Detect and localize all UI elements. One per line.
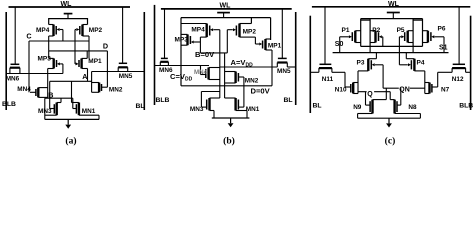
node B horizontal wire left [6,73,63,75]
svg-text:A: A [82,72,87,81]
svg-text:MN3: MN3 [190,106,204,113]
wire BL to N11 [310,71,319,73]
wire P1-P2 pair top bar [361,19,370,21]
wire MP4 gate to node C [62,30,64,42]
node S0-S1 wire [333,52,449,54]
wire VDD rail (b) [181,17,271,19]
wire P5-P6 pair left vertical [412,19,414,47]
svg-text:WL: WL [61,1,73,8]
wire WL to MN6 gate (b) [164,9,166,59]
access transistor MN6 [6,64,20,82]
wire node A jog to MN3 gate (b) [201,92,219,108]
svg-text:C: C [26,32,31,41]
wire MP4 drain to node B (b) [199,37,201,53]
transistor MP2 (b) [227,24,256,38]
label C=VDD (b) [170,72,193,83]
svg-text:B=0V: B=0V [195,50,215,59]
wire MP1 top corner (b) [270,18,272,40]
word line WL (panel a) [9,1,131,8]
transistor N8 [390,100,420,114]
wire MP1 drain to node A [87,69,89,82]
svg-text:D: D [103,41,108,50]
wire P3 top to S wire [375,53,377,59]
svg-text:P2: P2 [372,27,380,34]
wire P6 gate to S1 [443,37,445,53]
svg-text:S1: S1 [439,45,448,52]
transistor MP3 (b) [175,34,201,45]
node B wire (b) [195,50,227,59]
svg-text:B: B [48,90,53,99]
svg-text:(a): (a) [65,136,76,147]
wire MP3 drain to node B [47,69,49,99]
svg-text:MN2: MN2 [109,86,123,93]
wire N9 source down [357,114,359,119]
caption (a) [65,136,76,147]
svg-text:N11: N11 [322,76,334,83]
ground symbol (panel b) [212,118,250,127]
node C wire [26,32,89,41]
wire pair drop left [369,46,371,52]
wire P1-P2 pair right vertical [369,19,371,47]
transistor P1 [340,27,361,43]
label A=VDD (b) [231,58,254,69]
bitline BLB (panel c) [459,16,473,110]
node Q wire [358,91,390,93]
svg-text:N7: N7 [441,87,450,94]
wire P4 top to S wire [405,53,407,59]
svg-text:D=0V: D=0V [251,87,271,96]
transistor N10 [335,83,358,94]
svg-text:MP4: MP4 [36,27,50,34]
wire P1-P2 pair left vertical [360,19,362,47]
wire node C right drop [88,36,90,58]
svg-text:BL: BL [136,103,145,110]
wire MP2 gate to node B (b) [226,30,228,53]
node S0 label [335,41,344,48]
wire MP3 top to node D [48,51,50,59]
wire MN1 source down (b) [246,111,248,119]
svg-text:MP1: MP1 [88,58,102,65]
wire N11 to N10 gate [332,72,345,87]
svg-text:MN4: MN4 [194,69,208,76]
wire MP1 top to node D [86,51,88,59]
svg-text:BLB: BLB [2,101,16,108]
transistor MN1 [72,103,100,116]
svg-text:(c): (c) [385,136,396,147]
wire MP2 gate to MP1 gate [74,30,76,64]
wire P5-P6 pair right vertical [422,19,424,47]
node A horizontal wire right [92,71,145,73]
node A wire [50,72,92,81]
svg-text:MN5: MN5 [277,68,291,75]
svg-text:N12: N12 [452,76,464,83]
bitline BL (panel b) [284,12,296,105]
wire pair bottoms horizontal [361,45,423,47]
transistor N9 [353,100,386,114]
wire N12 to N7 gate [438,72,452,87]
node B wire [45,90,73,99]
svg-text:N8: N8 [408,104,417,111]
bitline BL (panel c) [310,16,321,113]
svg-text:MN2: MN2 [245,78,259,85]
VDD supply symbol (panel c) [387,13,400,19]
transistor P4 [399,59,424,71]
transistor MN4 [17,86,47,97]
svg-text:MP3: MP3 [175,37,189,44]
wire node QN to N8 gate [400,88,402,105]
svg-text:Q: Q [367,91,373,98]
wire MP2 drain to MP1 gate (b) [254,37,256,44]
svg-text:BL: BL [313,102,322,109]
wire MP1 drain to node D (b) [271,50,273,86]
node S1 label [439,45,448,52]
wire VDD rail MP4-MP2 [49,19,88,25]
wire P3 gate to node QN [382,65,384,88]
svg-text:N9: N9 [353,104,362,111]
svg-text:MP2: MP2 [89,27,103,34]
node Q label [367,89,375,98]
access transistor N11 [319,64,334,83]
wire N8 source down [419,114,421,119]
svg-text:P5: P5 [397,27,405,34]
access transistor MN5 (b) [277,58,291,75]
word line WL (panel b) [161,2,292,9]
transistor MP1 [75,58,102,69]
wire WL to MN5 gate [122,7,124,63]
wire node Q to N9 gate [365,92,367,105]
word line WL (panel c) [312,1,470,8]
transistor P5 [397,27,414,43]
label D=0V (b) [251,87,271,96]
node C wire (b) [155,65,210,67]
wire node B left drop to ground rail [44,98,46,119]
transistor P3 [357,59,384,71]
svg-text:(b): (b) [223,136,235,147]
wire N12 to BLB [466,71,471,73]
node QN label [399,84,410,93]
wire VDD rail (c) [361,18,423,20]
wire WL to N12 gate [458,7,460,65]
node QN wire [383,87,425,89]
wire WL to N11 gate [324,7,326,65]
wire node D drop to MN2 gate [106,51,108,87]
wire WL to MN5 gate (b) [281,9,283,59]
wire pair drop right [412,46,414,52]
wire node A to MN3 gate [49,81,51,108]
svg-text:MP1: MP1 [268,43,282,50]
wire MN3 drain to node B [60,98,62,102]
svg-text:S0: S0 [335,41,344,48]
node A vertical (b) [219,30,221,98]
transistor MN4 (b) [194,68,220,80]
bitline BL (panel a) [136,12,145,110]
bitline BLB (panel b) [155,5,170,105]
wire MN1 drain to node A [71,81,73,102]
caption (c) [385,136,396,147]
access transistor N12 [452,64,466,83]
bitline BLB (panel a) [2,12,16,110]
svg-text:WL: WL [220,2,232,9]
wire node C to MN4 gate [28,41,30,92]
svg-text:P1: P1 [342,27,350,34]
svg-text:P6: P6 [438,26,446,33]
wire P5 gate to P4 gate [398,37,400,65]
wire WL to MN6 gate [14,7,16,64]
transistor MN1 (b) [225,98,260,113]
wire MN3 source down (b) [213,111,215,119]
transistor MN3 (b) [190,98,220,113]
VDD supply symbol (panel a) [64,14,73,19]
svg-text:BLB: BLB [459,103,473,110]
node A wire (b) [220,66,277,68]
wire MP2 top riser (b) [250,18,252,24]
svg-text:MP4: MP4 [191,27,205,34]
svg-text:MN6: MN6 [159,67,173,74]
transistor MP1 (b) [255,39,281,50]
svg-text:WL: WL [388,1,400,8]
access transistor MN6 (b) [159,58,173,73]
VDD supply symbol (panel b) [217,13,230,18]
wire N8 drain to Q [389,92,391,100]
svg-text:MN6: MN6 [6,76,20,83]
transistor P6 [423,26,446,43]
wire node C to MN4 gate (b) [200,66,202,75]
node B vertical (b) [224,53,226,98]
svg-text:BL: BL [284,97,293,104]
wire MN1 source down [98,115,100,119]
wire node B to MN1 gate [72,98,74,108]
transistor MN2 [92,83,123,94]
wire MN5 to BL (b) [287,66,295,68]
node D wire [49,41,108,51]
wire P2 gate drop [382,37,384,47]
wire P5-P6 pair top bar [413,19,422,21]
access transistor MN5 [118,63,133,80]
ground symbol (panel c) [358,118,421,127]
svg-text:MN1: MN1 [246,106,260,113]
svg-text:P3: P3 [357,60,365,67]
node D wire (b) [181,85,272,87]
wire N9 drain to QN [385,88,387,99]
wire P3 drain down [357,71,359,94]
wire MP4 drain down [48,36,50,51]
transistor P2 [370,27,383,43]
transistor MP3 [38,56,63,69]
transistor N7 [425,83,450,94]
wire left rail vertical (b) [180,18,182,86]
ground symbol (panel a) [45,119,99,128]
caption (b) [223,136,235,147]
wire MN2 MN1 gates to node D (b) [243,77,245,107]
svg-text:MP2: MP2 [243,28,257,35]
wire P1 gate to S0 [339,37,341,53]
wire MN2 to node A riser [91,72,93,93]
transistor MP4 (b) [181,24,220,38]
svg-text:N10: N10 [335,87,347,94]
transistor MP2 [75,25,103,37]
svg-text:MN5: MN5 [119,73,133,80]
wire MP3 gate to node B wire [62,64,64,74]
transistor MP4 [36,25,63,37]
svg-text:P4: P4 [417,60,425,67]
svg-text:MN1: MN1 [82,108,96,115]
svg-text:BLB: BLB [156,97,170,104]
svg-text:MN4: MN4 [17,86,31,93]
wire P4 drain down [424,71,426,94]
transistor MN3 [38,103,61,116]
transistor MN2 (b) [225,72,259,85]
